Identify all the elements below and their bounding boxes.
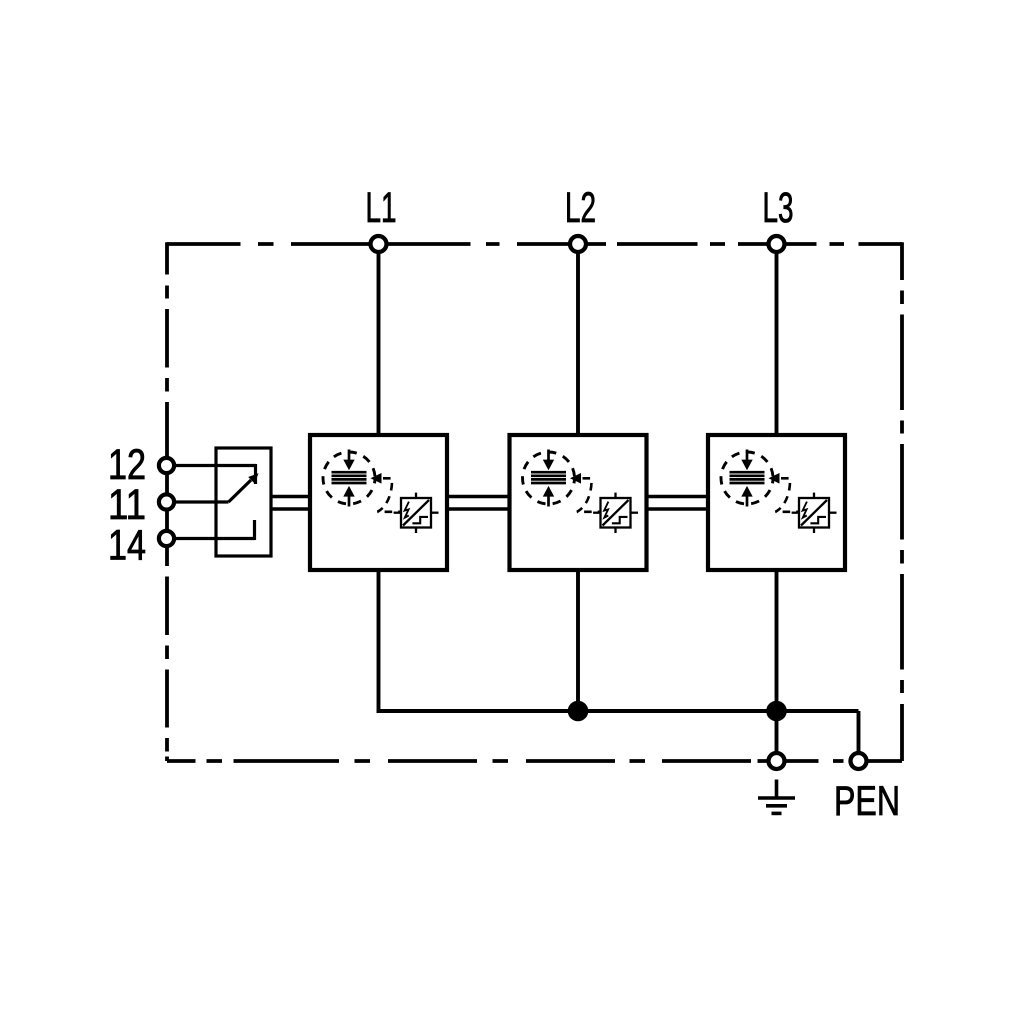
equipment boundary dash-dot border, bottom edge: [167, 759, 902, 763]
terminal L1: [371, 236, 387, 252]
terminal to earth: [769, 753, 785, 769]
contact 12 fixed contact stub: [254, 464, 257, 484]
wire L3 phase drop from terminal to module: [775, 244, 779, 435]
junction dot bus / L3: [766, 701, 787, 722]
surge arrester module L1: [310, 435, 447, 570]
equipment boundary dash-dot border, right edge: [900, 242, 904, 761]
svg-text:14: 14: [108, 522, 146, 570]
terminal PEN: [851, 753, 867, 769]
switch arm of changeover contact: [229, 480, 252, 502]
wire terminal 14 to changeover contact: [167, 537, 256, 540]
changeover signalling contact box: [216, 448, 271, 556]
svg-text:L2: L2: [565, 184, 596, 232]
wire from L3 module bottom through bus to earth terminal: [775, 570, 779, 761]
wire terminal 12 to changeover contact: [167, 464, 257, 467]
svg-text:L1: L1: [366, 184, 397, 232]
svg-text:L3: L3: [763, 184, 794, 232]
surge arrester module L3: [708, 435, 845, 570]
terminal L3: [769, 236, 785, 252]
wire terminal 11 to changeover contact: [167, 500, 229, 503]
wire from L1 module bottom to earth bus: [377, 570, 381, 713]
surge arrester module L2: [510, 435, 647, 570]
mechanical link module L2 to module L3: [647, 495, 709, 499]
wire from L2 module bottom to earth bus: [576, 570, 580, 711]
svg-text:PEN: PEN: [834, 777, 900, 824]
mechanical link contact box to module L1: [271, 495, 310, 499]
wire L2 phase drop from terminal to module: [576, 244, 580, 435]
terminal L2: [570, 236, 586, 252]
terminal 14: [159, 531, 174, 546]
contact 14 fixed contact stub: [253, 520, 256, 540]
equipment boundary dash-dot border, left edge: [165, 242, 169, 761]
equipment boundary dash-dot border, top edge: [167, 242, 902, 246]
terminal 12: [159, 458, 174, 473]
ground symbol: [758, 780, 795, 814]
mechanical link module L1 to module L2: [447, 495, 510, 499]
wire L1 phase drop from terminal to module: [377, 244, 381, 435]
wire from bus down to PEN terminal: [857, 711, 861, 761]
junction dot bus / L2: [568, 701, 589, 722]
earth bus wire: [377, 709, 859, 713]
terminal 11: [159, 494, 174, 509]
